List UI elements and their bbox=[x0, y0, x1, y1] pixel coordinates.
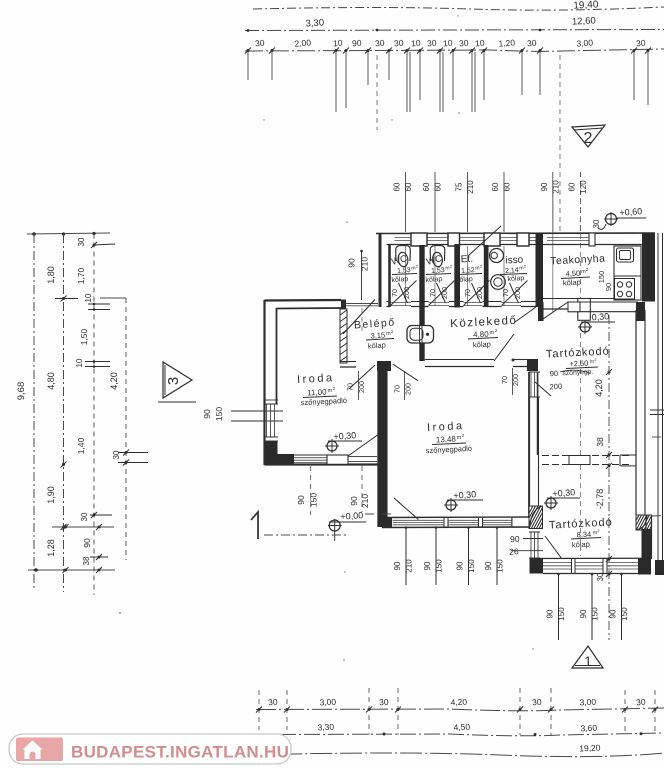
svg-text:60: 60 bbox=[503, 182, 512, 191]
svg-text:19,20: 19,20 bbox=[579, 742, 601, 753]
svg-text:90: 90 bbox=[202, 409, 212, 419]
svg-text:90: 90 bbox=[549, 369, 558, 378]
svg-text:200: 200 bbox=[475, 287, 484, 299]
svg-text:90: 90 bbox=[393, 561, 402, 570]
svg-text:30: 30 bbox=[459, 38, 469, 49]
svg-text:9,68: 9,68 bbox=[16, 382, 27, 401]
svg-text:90: 90 bbox=[604, 283, 613, 291]
svg-text:kőlap: kőlap bbox=[456, 276, 473, 284]
svg-text:75: 75 bbox=[455, 182, 464, 191]
svg-text:120: 120 bbox=[579, 180, 588, 194]
svg-text:150: 150 bbox=[591, 607, 600, 621]
svg-text:10: 10 bbox=[75, 358, 84, 367]
svg-text:3,00: 3,00 bbox=[579, 697, 596, 708]
svg-text:30: 30 bbox=[394, 38, 404, 49]
svg-text:200: 200 bbox=[513, 287, 522, 299]
svg-text:12,60: 12,60 bbox=[572, 15, 596, 27]
svg-text:4,20: 4,20 bbox=[109, 372, 119, 390]
svg-text:4,20: 4,20 bbox=[594, 379, 604, 397]
svg-text:+0,30: +0,30 bbox=[333, 430, 356, 442]
svg-text:90: 90 bbox=[540, 182, 549, 191]
svg-text:Iroda: Iroda bbox=[297, 372, 335, 386]
svg-text:70: 70 bbox=[428, 289, 437, 297]
svg-text:Et.: Et. bbox=[460, 254, 473, 266]
svg-text:4,20: 4,20 bbox=[450, 697, 467, 708]
svg-text:70: 70 bbox=[390, 289, 399, 297]
svg-text:1,90: 1,90 bbox=[46, 486, 56, 504]
svg-text:Iroda: Iroda bbox=[427, 420, 465, 434]
svg-text:150: 150 bbox=[597, 271, 606, 284]
svg-text:90: 90 bbox=[510, 534, 520, 544]
svg-text:kőlap: kőlap bbox=[563, 278, 581, 288]
svg-text:90: 90 bbox=[352, 38, 362, 49]
svg-text:30: 30 bbox=[592, 219, 601, 228]
svg-text:+0,00: +0,00 bbox=[340, 510, 363, 522]
svg-text:-2,78: -2,78 bbox=[595, 489, 605, 510]
svg-text:30: 30 bbox=[527, 38, 537, 49]
svg-text:3: 3 bbox=[165, 377, 182, 385]
svg-text:30: 30 bbox=[80, 512, 89, 521]
svg-text:26: 26 bbox=[509, 546, 519, 556]
svg-text:kőlap: kőlap bbox=[473, 340, 491, 350]
svg-text:60: 60 bbox=[393, 182, 402, 191]
svg-text:1,28: 1,28 bbox=[46, 539, 56, 557]
svg-text:2,00: 2,00 bbox=[294, 37, 311, 48]
svg-text:150: 150 bbox=[557, 607, 566, 621]
svg-text:1,40: 1,40 bbox=[76, 437, 86, 454]
svg-text:90: 90 bbox=[456, 561, 465, 570]
svg-text:kőlap: kőlap bbox=[391, 276, 408, 284]
svg-text:kőlap: kőlap bbox=[507, 275, 524, 283]
svg-text:kőlap: kőlap bbox=[368, 340, 387, 350]
svg-text:90: 90 bbox=[484, 561, 493, 570]
svg-text:210: 210 bbox=[360, 257, 370, 271]
svg-text:3,30: 3,30 bbox=[305, 18, 324, 30]
svg-text:90: 90 bbox=[349, 496, 359, 506]
svg-text:90: 90 bbox=[82, 538, 92, 548]
svg-text:2: 2 bbox=[584, 130, 593, 147]
svg-text:60: 60 bbox=[404, 182, 413, 191]
svg-text:90: 90 bbox=[546, 609, 555, 618]
svg-text:60: 60 bbox=[568, 182, 577, 191]
svg-text:30: 30 bbox=[532, 697, 542, 707]
svg-text:30: 30 bbox=[379, 697, 389, 707]
svg-text:150: 150 bbox=[620, 607, 629, 621]
svg-text:30: 30 bbox=[427, 38, 437, 49]
svg-text:210: 210 bbox=[405, 559, 414, 573]
svg-text:200: 200 bbox=[402, 287, 411, 299]
svg-text:1,80: 1,80 bbox=[46, 266, 56, 284]
svg-text:+0,60: +0,60 bbox=[619, 206, 642, 218]
svg-text:13,48: 13,48 bbox=[436, 434, 457, 444]
svg-text:210: 210 bbox=[360, 494, 370, 508]
svg-text:38: 38 bbox=[82, 556, 91, 565]
svg-text:10: 10 bbox=[443, 38, 453, 49]
svg-text:90: 90 bbox=[296, 495, 306, 505]
svg-text:150: 150 bbox=[309, 493, 319, 507]
svg-text:200: 200 bbox=[549, 382, 562, 392]
svg-text:1,50: 1,50 bbox=[79, 328, 89, 345]
svg-text:210: 210 bbox=[551, 180, 560, 194]
svg-text:150: 150 bbox=[435, 559, 444, 573]
svg-text:70: 70 bbox=[501, 289, 510, 297]
svg-text:kőlap: kőlap bbox=[425, 276, 442, 284]
svg-text:BUDAPEST.INGATLAN.HU: BUDAPEST.INGATLAN.HU bbox=[71, 743, 289, 762]
svg-text:60: 60 bbox=[491, 182, 500, 191]
svg-text:1,70: 1,70 bbox=[76, 267, 86, 284]
svg-text:90: 90 bbox=[579, 609, 588, 618]
svg-text:10: 10 bbox=[84, 293, 93, 302]
svg-text:30: 30 bbox=[77, 237, 86, 246]
svg-text:3,60: 3,60 bbox=[580, 723, 597, 734]
svg-text:10: 10 bbox=[333, 38, 343, 49]
svg-text:1: 1 bbox=[584, 654, 592, 669]
svg-text:30: 30 bbox=[268, 697, 278, 707]
svg-text:3,00: 3,00 bbox=[319, 697, 336, 708]
svg-text:60: 60 bbox=[422, 182, 431, 191]
svg-text:30: 30 bbox=[636, 38, 646, 49]
svg-text:10: 10 bbox=[411, 38, 421, 49]
svg-text:30: 30 bbox=[112, 450, 121, 459]
svg-text:30: 30 bbox=[375, 38, 385, 49]
svg-text:90: 90 bbox=[347, 258, 357, 268]
svg-text:19,40: 19,40 bbox=[573, 0, 599, 12]
svg-text:90: 90 bbox=[609, 609, 618, 618]
svg-text:90: 90 bbox=[423, 561, 432, 570]
svg-text:+2,50: +2,50 bbox=[569, 359, 588, 369]
svg-text:4,80: 4,80 bbox=[46, 372, 56, 390]
svg-text:150: 150 bbox=[214, 407, 224, 421]
svg-text:70: 70 bbox=[463, 289, 472, 297]
svg-text:3,00: 3,00 bbox=[576, 37, 593, 48]
svg-text:3,30: 3,30 bbox=[317, 722, 334, 733]
svg-text:150: 150 bbox=[467, 559, 476, 573]
svg-text:30: 30 bbox=[636, 697, 646, 707]
svg-text:70: 70 bbox=[393, 385, 402, 393]
svg-text:10: 10 bbox=[475, 38, 485, 49]
svg-text:70: 70 bbox=[346, 383, 355, 391]
svg-text:210: 210 bbox=[466, 180, 475, 194]
svg-text:+0,30: +0,30 bbox=[453, 489, 476, 501]
svg-text:38: 38 bbox=[595, 437, 605, 447]
svg-text:60: 60 bbox=[434, 182, 443, 191]
svg-text:200: 200 bbox=[440, 287, 449, 299]
svg-text:4,50: 4,50 bbox=[453, 722, 470, 733]
svg-text:150: 150 bbox=[496, 559, 505, 573]
svg-text:1,20: 1,20 bbox=[498, 37, 515, 48]
svg-text:+0,30: +0,30 bbox=[552, 487, 575, 499]
svg-text:70: 70 bbox=[500, 376, 509, 384]
svg-text:30: 30 bbox=[255, 38, 265, 49]
